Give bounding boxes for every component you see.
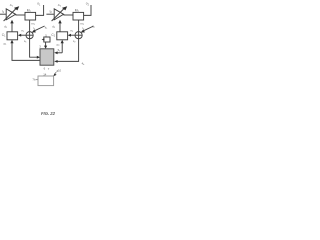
svg-text:4b: 4b: [82, 61, 86, 66]
svg-text:s1: s1: [24, 39, 27, 44]
diagonal arrow k1 into summer S1: [35, 26, 45, 31]
box M2: [73, 12, 84, 20]
processor box (grey): [40, 49, 54, 65]
wire M1 bottom to summer S1: [29, 20, 31, 32]
svg-text:A1: A1: [10, 3, 14, 8]
probe box left arrowhead: [42, 38, 45, 40]
wire summer S2 to C2 with arrowhead: [70, 34, 75, 36]
svg-text:6: 6: [44, 66, 46, 70]
diagonal arrow k2 into summer S2: [84, 26, 94, 31]
svg-text:C1: C1: [2, 33, 6, 38]
amplifier A2 triangle: [54, 9, 63, 20]
summer S2 circle: [75, 32, 82, 39]
svg-text:p1: p1: [4, 42, 8, 47]
variable-gain diagonal arrow A2: [52, 8, 65, 21]
svg-text:5b: 5b: [58, 48, 62, 53]
wire input i1: [0, 13, 6, 15]
summer S1 circle: [26, 32, 33, 39]
control arrowhead into amp A1 bottom: [10, 20, 13, 24]
wire M2 output riser to o2: [84, 5, 91, 15]
wire summer S1 down and into processor: [30, 39, 38, 57]
wire amp A2 to box M2: [63, 14, 73, 16]
wire processor right port to C2 bottom with arrows both ends: [61, 43, 63, 53]
tick 7b on display left: [36, 79, 38, 81]
wire C1 top to amp A1 control: [11, 23, 13, 32]
wire M2 bottom to summer S2: [78, 20, 80, 32]
summer S1 plus cross: [29, 32, 31, 39]
wire C2 top to amp A2 control: [59, 23, 61, 32]
amplifier A1 triangle: [6, 9, 15, 20]
box M1: [25, 12, 36, 20]
wire M1 output riser to o1: [36, 5, 44, 15]
wire amp A1 to box M1: [15, 14, 25, 16]
svg-text:10: 10: [58, 69, 62, 73]
svg-text:s2: s2: [73, 39, 76, 44]
svg-text:FIG. 22: FIG. 22: [41, 111, 56, 116]
display box (light): [38, 76, 54, 86]
svg-text:d1: d1: [4, 25, 8, 30]
wire probe box to processor top with down arrowhead: [45, 42, 47, 46]
wire input i2: [46, 13, 54, 15]
svg-text:d2: d2: [52, 25, 56, 30]
variable-gain diagonal arrow A1: [4, 8, 17, 21]
svg-text:i1: i1: [2, 10, 5, 15]
svg-text:k1: k1: [45, 25, 48, 30]
box C1: [7, 32, 18, 40]
control arrowhead into amp A2 bottom: [58, 20, 61, 24]
svg-text:M2: M2: [75, 9, 80, 14]
svg-text:7b: 7b: [32, 78, 36, 82]
svg-text:14: 14: [43, 72, 47, 76]
svg-text:C2: C2: [51, 33, 55, 38]
svg-text:o1: o1: [37, 2, 41, 7]
svg-text:A2: A2: [58, 3, 62, 8]
wire summer S2 down and into processor right: [57, 39, 79, 62]
svg-text:M1: M1: [27, 9, 32, 14]
svg-text:e2: e2: [70, 29, 74, 33]
svg-text:3: 3: [39, 44, 41, 48]
svg-text:7: 7: [48, 67, 50, 71]
dashed leader arrow 10 to display corner: [55, 71, 58, 74]
svg-text:i2: i2: [50, 10, 53, 15]
svg-text:o2: o2: [86, 2, 90, 7]
box C2: [57, 32, 68, 40]
wire processor to C1 bottom with up arrowhead: [12, 43, 40, 61]
summer S2 plus cross: [78, 32, 80, 39]
wire summer S1 to C1 with arrowhead: [20, 34, 26, 36]
svg-text:k2: k2: [92, 25, 95, 30]
svg-text:p2: p2: [57, 42, 61, 47]
probe box T: [44, 37, 50, 42]
svg-text:e1: e1: [21, 29, 25, 33]
